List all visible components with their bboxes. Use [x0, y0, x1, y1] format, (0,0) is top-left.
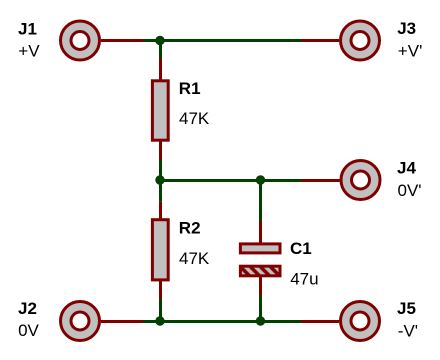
capacitor C1 — [240, 244, 280, 276]
svg-text:C1: C1 — [290, 239, 312, 258]
wire R1 to middle rail — [159, 160, 162, 181]
lead R1 top — [159, 59, 162, 81]
svg-text:+V: +V — [18, 41, 40, 60]
wire middle rail green — [160, 179, 301, 182]
node junction R bottom rail — [155, 316, 164, 325]
wire R2 to bottom rail — [159, 299, 162, 321]
resistor R1 — [152, 81, 168, 140]
lead J2 — [101, 320, 143, 323]
wire middle rail to C1 — [259, 180, 262, 221]
svg-text:+V': +V' — [398, 41, 423, 60]
resistor R2 — [152, 220, 168, 280]
connector J4 — [341, 161, 380, 200]
svg-text:J2: J2 — [18, 299, 37, 318]
lead J3 — [301, 39, 339, 42]
svg-text:0V: 0V — [18, 321, 39, 340]
wire middle rail to R2 — [159, 180, 162, 202]
node junction C middle rail — [256, 175, 265, 184]
node junction R middle rail — [155, 175, 164, 184]
lead R2 bottom — [159, 281, 162, 300]
lead C1 bottom — [259, 277, 262, 296]
lead R2 top — [159, 202, 162, 220]
svg-text:J1: J1 — [18, 19, 37, 38]
svg-text:J5: J5 — [397, 299, 416, 318]
svg-text:-V': -V' — [398, 321, 418, 340]
connector J3 — [341, 21, 380, 60]
svg-text:R1: R1 — [179, 79, 201, 98]
lead J4 — [301, 179, 340, 182]
lead R1 bottom — [159, 141, 162, 160]
node junction R top rail — [155, 36, 164, 45]
connector J5 — [341, 302, 380, 341]
lead J5 — [301, 320, 339, 323]
connector J1 — [61, 21, 100, 60]
node junction C bottom rail — [256, 316, 265, 325]
wire C1 to bottom rail — [259, 295, 262, 322]
svg-text:47K: 47K — [179, 249, 210, 268]
wire bottom rail green — [143, 320, 301, 323]
lead C1 top — [259, 221, 262, 243]
svg-text:47K: 47K — [179, 109, 210, 128]
svg-text:47u: 47u — [290, 269, 318, 288]
svg-text:0V': 0V' — [398, 181, 422, 200]
svg-text:R2: R2 — [179, 219, 201, 238]
connector J2 — [61, 302, 100, 341]
lead J1 — [101, 39, 143, 42]
svg-text:J4: J4 — [397, 159, 416, 178]
svg-text:J3: J3 — [397, 19, 416, 38]
wire top rail green — [143, 39, 301, 42]
wire R column top (J1 rail to R1) — [159, 41, 162, 59]
